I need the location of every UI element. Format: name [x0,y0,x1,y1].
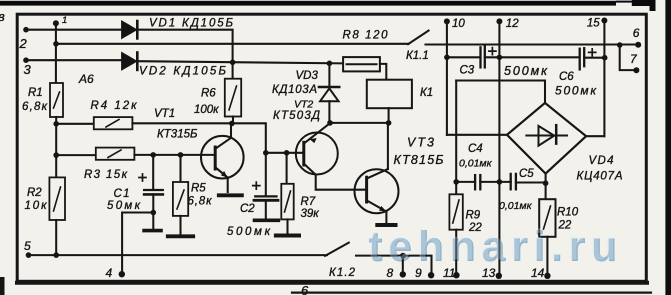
wire col15 [603,21,605,137]
node bridge bottom junction [543,180,549,186]
resistor R8 [343,57,380,71]
capacitor C5 [510,174,512,189]
svg-text:39к: 39к [301,208,320,220]
wire VD1 cathode to node [138,30,232,63]
svg-text:15: 15 [587,18,600,30]
ground R7 [276,234,299,238]
resistor R5 [173,182,188,216]
svg-text:R10: R10 [557,207,579,219]
svg-text:10к: 10к [25,200,48,212]
svg-text:0,01мк: 0,01мк [459,158,493,170]
svg-text:500мк: 500мк [555,84,597,98]
node pin 12 [496,18,502,24]
wire C5 right to bridge bottom [516,181,546,183]
diode VD3 [328,63,330,86]
wire column pin1 down to R1 [55,23,57,83]
node pin 11 [453,272,459,278]
wire K1.1 output line to pin 6 [426,43,639,45]
svg-text:R2: R2 [27,187,42,199]
wire VT3 collector column [387,123,389,169]
resistor R6 [225,79,241,117]
wire VT2 base line [266,152,304,154]
wire R10 bottom to pin 14 [546,237,548,276]
wire bracket to pin 7 [620,45,637,70]
svg-text:R6: R6 [201,88,216,100]
wire K1 bottom [388,108,390,123]
node R6 top [230,60,236,66]
wire C1 junction to pin 4 [122,213,153,274]
node junction row2 [53,41,59,47]
svg-text:К1: К1 [420,87,433,99]
svg-text:КЦ407А: КЦ407А [577,171,623,183]
node R3 junction [53,152,59,158]
wire C4 right [480,181,510,183]
svg-text:С2: С2 [240,203,255,215]
scan top-right patch [632,0,655,6]
node pin 15 [601,18,607,24]
wire C4 left [456,181,475,183]
scan bottom-left blob [0,277,5,295]
wire C6 right [584,57,605,59]
svg-text:R8 120: R8 120 [343,30,389,42]
node pin 5 [26,252,32,258]
resistor R3 [96,148,135,160]
resistor R2 [49,177,65,220]
svg-text:К1.1: К1.1 [406,50,429,62]
svg-text:VD2 КД105Б: VD2 КД105Б [139,66,227,78]
wire bridge bottom to R10 [545,174,547,200]
node pin 8 [400,271,406,277]
wire rect top edge to bridge top [456,81,545,103]
svg-text:12: 12 [506,18,519,30]
node R5 junction [178,152,184,158]
svg-text:50мк: 50мк [107,200,141,212]
node C1 bottom junction [151,210,157,216]
node pin 6 [635,42,641,48]
wire R3 branch [56,154,96,156]
svg-text:С1: С1 [114,188,130,200]
node VD3 bottom junction [327,120,333,126]
svg-text:100к: 100к [194,104,219,116]
resistor R7 [281,184,293,220]
wire R4 right to VT2 base column [132,123,265,153]
wire R6 column [232,62,234,78]
switch K1.2 [325,243,349,256]
svg-text:VD1 КД105Б: VD1 КД105Б [149,18,234,30]
svg-text:VT2: VT2 [294,99,313,111]
svg-text:К1.2: К1.2 [329,267,356,279]
svg-text:С3: С3 [460,65,475,77]
svg-text:10: 10 [452,18,465,30]
diode VD2 [122,53,137,70]
node row3 left pin [23,57,29,63]
wire row1 from pin to VD1 [26,29,122,31]
wire VD2 cathode to R8 [138,61,343,63]
wire bottom rail [29,254,328,256]
node VT1 collector junction [229,121,235,127]
scan top strip [0,1,616,6]
node pin 1 [53,20,59,26]
node pin 13 [496,273,502,279]
resistor R1 [50,83,63,117]
wire row2 to K1.1 [56,43,409,45]
node rail col8 junction [400,253,406,259]
svg-text:500мк: 500мк [504,64,548,78]
svg-text:С4: С4 [468,143,483,155]
node VD3 top [327,61,333,67]
bridge VD4 [507,103,586,174]
wire bridge right to col15 [586,135,604,137]
capacitor C1 [152,155,154,190]
node R7 top [284,150,290,156]
node pin 7 [633,67,639,73]
svg-text:VT1: VT1 [154,108,175,120]
svg-text:tehnari.ru: tehnari.ru [367,222,616,270]
resistor R9 [449,194,462,229]
wire row3 from pin to VD2 [26,59,122,61]
svg-text:А6: А6 [78,72,94,86]
wire col to R9/C4 [455,81,457,195]
svg-text:С6: С6 [559,71,574,83]
svg-text:6: 6 [301,283,309,295]
wire R1 bottom to R2 top [55,117,57,177]
wire R9 bottom to pin 11 [455,230,457,276]
node pin 4 [119,271,125,277]
capacitor C2 [265,153,267,196]
transistor VT3 [355,169,399,213]
capacitor C3 [479,47,481,67]
wire R2 bottom to rail [55,220,57,255]
resistor R10 [539,199,555,237]
ground C1 [144,229,161,233]
svg-text:R4 12к: R4 12к [91,100,138,112]
svg-text:в: в [0,9,5,24]
svg-text:R7: R7 [301,196,316,208]
relay K1 [367,80,412,109]
node row1 left pin [23,27,29,33]
wire bridge left line [447,134,507,136]
svg-text:R1: R1 [28,87,43,99]
svg-text:С5: С5 [519,168,534,180]
watermark tehnari.ru [367,222,618,272]
wire C3 right to C6 [485,56,579,58]
node R2 rail junction [53,252,59,258]
transistor VT1 [201,136,244,179]
ground VT3 [377,223,395,227]
svg-text:КТ503Д: КТ503Д [273,110,320,122]
transistor VT2 [296,133,338,175]
svg-text:VD4: VD4 [589,155,614,167]
node bracket junction 6-7 [617,42,623,48]
node C1 junction [150,152,156,158]
node pin 9 [428,272,434,278]
wire VD3 junction to K1 bottom [330,122,389,124]
node R4 junction [53,121,59,127]
svg-text:VD3: VD3 [296,70,319,82]
node VT2 base column top [263,150,269,156]
svg-text:6,8к: 6,8к [188,196,213,208]
svg-text:3: 3 [24,62,32,77]
node C6 right junction [602,55,608,61]
capacitor C6 [579,49,581,70]
resistor R4 [94,117,133,129]
ground C2 [255,219,279,223]
svg-text:R3 15к: R3 15к [84,169,128,181]
node col12 C3 junction [497,55,503,61]
scan bottom thin line [292,292,651,294]
svg-text:6: 6 [633,26,640,40]
wire C3 left [447,56,480,58]
wire R4 branch [56,123,94,125]
svg-text:КД103А: КД103А [272,84,317,96]
svg-text:1: 1 [62,15,67,26]
wire R5 stem [179,155,181,182]
switch K1.1 [408,31,429,45]
ground VT1 [219,193,242,197]
svg-text:VT3: VT3 [407,136,434,150]
node pin 10 [444,18,450,24]
node pin 14 [544,273,550,279]
wire R8 right to K1 [380,64,386,80]
svg-text:R9: R9 [466,210,481,222]
svg-text:2: 2 [19,36,28,51]
ground R5 [168,234,193,238]
wire col8 [402,256,404,275]
svg-text:R5: R5 [191,183,206,195]
node C4 left junction [453,179,459,185]
wire col12 full [498,21,500,275]
svg-text:4: 4 [106,266,113,280]
scan right strip [665,0,671,295]
svg-text:КТ315Б: КТ315Б [157,129,198,141]
node C3 left junction [444,55,450,61]
svg-text:0,01мк: 0,01мк [499,200,533,212]
node K1 bottom junction [386,120,392,126]
wire R7 stem [286,153,288,184]
node col13 C4 junction [497,179,503,185]
diode VD1 [122,21,137,38]
capacitor C4 [474,175,476,189]
wire VT1 base line [134,154,215,156]
svg-text:5: 5 [24,239,31,253]
wire col10 [446,21,448,134]
svg-text:6,8к: 6,8к [22,101,48,113]
